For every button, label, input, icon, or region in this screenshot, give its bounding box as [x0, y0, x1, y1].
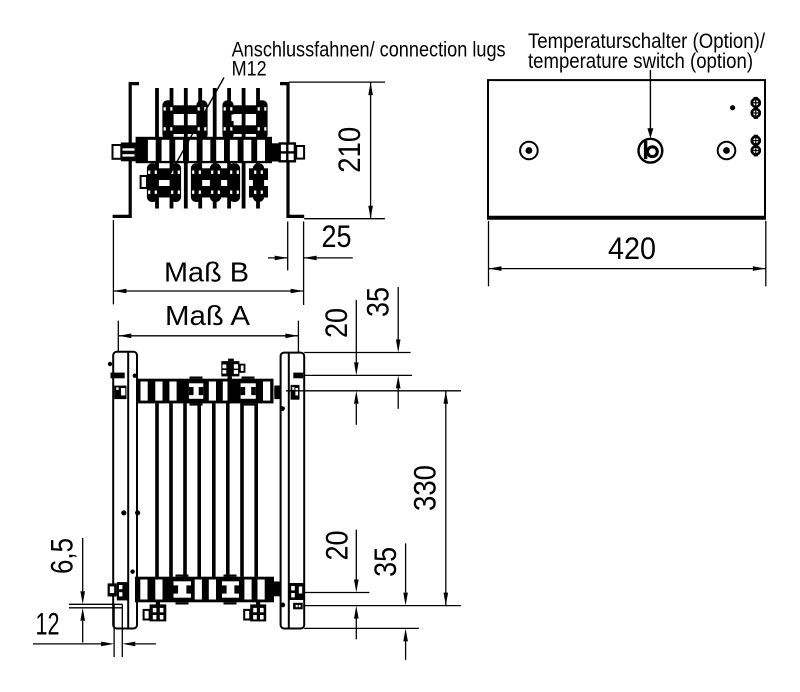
leader arrow temperature switch — [649, 70, 651, 130]
svg-text:20: 20 — [318, 531, 354, 561]
extension line D (lower band bolt row) — [305, 592, 369, 594]
svg-text:6,5: 6,5 — [44, 538, 80, 574]
screw heads right edge — [751, 98, 762, 109]
cover panel bottom edge (thick) — [487, 216, 766, 220]
panel hole left — [520, 142, 538, 160]
left terminal stud cap — [113, 145, 122, 159]
left plate upper bolt (20 line) — [111, 373, 125, 379]
dimension 35 upper — [397, 287, 399, 340]
right terminal stud with nut — [272, 143, 280, 161]
dimension 6,5 — [82, 538, 84, 591]
top center bolt cluster — [221, 361, 239, 376]
connection lug group lower-right — [249, 168, 268, 180]
svg-text:35: 35 — [367, 547, 403, 577]
left terminal hex nut — [121, 143, 136, 162]
extension line E (foot flange top) — [304, 605, 461, 607]
right plate flange-row flat bolt — [293, 603, 303, 610]
dimension 330 — [445, 391, 447, 606]
dimension 12 — [33, 643, 101, 645]
panel hole right — [718, 142, 736, 160]
side plate left — [113, 352, 137, 629]
resistor grid rods (front view) — [155, 88, 159, 209]
resistor element band (front view) — [136, 137, 272, 163]
lower element band (side view) — [135, 577, 274, 603]
lower band right stud — [274, 582, 281, 597]
right plate upper bolt (20 line) — [293, 373, 303, 379]
dimension Ma&#223; B — [113, 290, 303, 292]
right plate band-row nut — [291, 385, 300, 400]
lower-left lug side cap — [141, 176, 147, 188]
svg-text:M12: M12 — [232, 57, 267, 81]
extension line F (plate bottom) — [304, 627, 419, 629]
dimension Ma&#223; B extension line left — [112, 220, 114, 304]
left mounting bracket (front view) — [113, 84, 139, 217]
extension line C (upper band bolt row) — [286, 390, 461, 392]
dimension 35 lower — [405, 543, 407, 592]
dimension 20 upper — [355, 300, 357, 362]
dimension 210 — [370, 82, 372, 219]
svg-text:Maß A: Maß A — [165, 300, 250, 331]
right mounting bracket (front view) — [280, 84, 304, 217]
svg-text:Maß B: Maß B — [164, 256, 249, 287]
right plate lower bolt cluster — [289, 583, 305, 600]
hanging bolt stems — [156, 602, 160, 605]
dimension 210 extension lines — [289, 81, 385, 83]
svg-text:12: 12 — [36, 606, 60, 642]
dimension Ma&#223; A extension lines — [117, 321, 119, 375]
side plate right — [281, 353, 305, 629]
small rivet dot — [730, 105, 735, 110]
side plate left inner edge — [127, 353, 129, 629]
temperature switch symbol — [639, 139, 663, 163]
dimension 25 — [268, 257, 288, 259]
left plate band-row nut — [114, 386, 126, 400]
left foot flange edge-on (double line) — [69, 603, 123, 605]
connection lug group lower-center — [192, 168, 239, 180]
svg-text:420: 420 — [608, 230, 656, 266]
side view resistor rods — [155, 403, 159, 577]
left plate lower bolt cluster — [108, 583, 117, 596]
svg-text:Anschlussfahnen/ connection lu: Anschlussfahnen/ connection lugs — [232, 37, 506, 61]
cover panel outline — [488, 80, 765, 218]
dimension Ma&#223; A — [118, 335, 298, 337]
extension line A (plate top) — [304, 352, 410, 354]
dimension 25 extension lines — [287, 222, 289, 271]
band white segment slots — [148, 140, 156, 161]
upper element band (side view) — [137, 379, 274, 404]
connection lug group upper-right (M12 bolts) — [224, 105, 267, 114]
connection lug group upper-left (M12 bolts) — [164, 105, 207, 114]
svg-text:25: 25 — [322, 218, 352, 254]
svg-text:temperature switch (option): temperature switch (option) — [528, 49, 753, 73]
leader line M12 — [169, 78, 224, 177]
side plate right inner edge — [288, 353, 290, 628]
dimension 420 — [489, 268, 766, 270]
extension line B (upper bolt row) — [304, 374, 412, 376]
plate rivet dots — [121, 510, 126, 515]
svg-text:330: 330 — [406, 465, 442, 511]
right terminal end cap — [296, 146, 304, 159]
hanging bolt assembly right — [244, 610, 250, 620]
connection lug group lower-left — [147, 168, 181, 180]
band-to-plate stud left — [274, 386, 280, 400]
left plate bottom slot / 12 extension lines — [113, 605, 115, 658]
svg-text:210: 210 — [331, 127, 367, 173]
dimension 420 extension lines — [488, 221, 490, 286]
svg-text:20: 20 — [318, 308, 354, 338]
svg-text:35: 35 — [359, 287, 395, 317]
hanging bolt assembly left — [144, 610, 150, 620]
dimension 20 lower — [355, 530, 357, 580]
